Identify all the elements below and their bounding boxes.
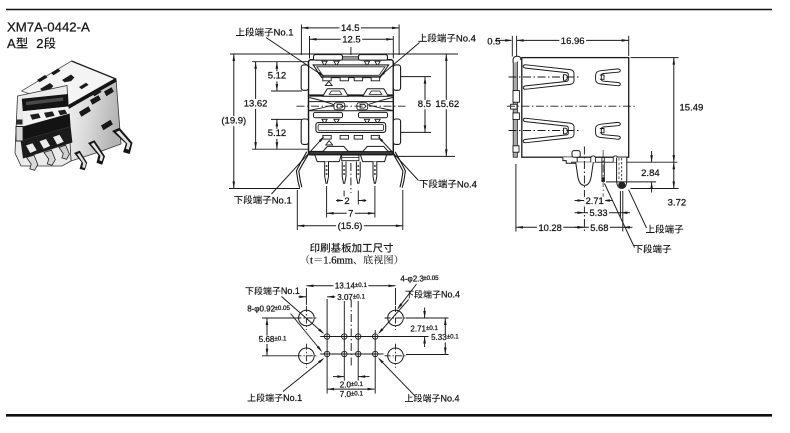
upper port bumps	[323, 89, 349, 96]
svg-text:5.68: 5.68	[259, 335, 275, 344]
label 下段端子No.1 (bottom)	[245, 286, 324, 334]
mounting holes 4-phi2.3	[299, 310, 315, 326]
photo front face	[15, 86, 71, 167]
svg-text:14.5: 14.5	[341, 23, 360, 34]
svg-text:±0.1: ±0.1	[426, 325, 439, 332]
svg-text:15.62: 15.62	[435, 99, 459, 110]
svg-text:10.28: 10.28	[539, 223, 562, 233]
label 8-phi0.92 (bottom)	[247, 305, 322, 352]
lower port wedge marks	[322, 119, 327, 124]
bottom view grid lines	[320, 336, 428, 338]
svg-text:No.4: No.4	[441, 394, 460, 404]
upper USB slot (trapezoid)	[313, 65, 388, 77]
svg-text:7.0: 7.0	[340, 390, 352, 399]
dimension 8.5 line	[424, 77, 427, 133]
caption 印刷基板加工尺寸	[310, 243, 393, 253]
dimension 5.12 upper	[266, 62, 288, 91]
upper port bottom thick line	[309, 94, 392, 96]
svg-text:5.68: 5.68	[590, 223, 608, 233]
svg-text:1.6mm: 1.6mm	[323, 255, 353, 266]
dimension 10.28	[516, 223, 585, 234]
bottom step bracket	[563, 157, 577, 163]
upper port contacts	[323, 77, 331, 81]
label 上段端子No.4 (bottom)	[378, 358, 460, 404]
upper USB port wedge marks	[322, 61, 327, 66]
svg-text:7: 7	[348, 209, 353, 220]
dimension 7.0	[327, 388, 374, 399]
bottom view centerline	[350, 300, 352, 369]
svg-text:No.1: No.1	[281, 286, 300, 296]
svg-text:No.4: No.4	[456, 34, 476, 45]
left edge latch steps	[513, 91, 519, 103]
label 上段端子No.1 (front)	[236, 28, 325, 77]
svg-text:8.5: 8.5	[418, 99, 431, 110]
shell bottom edge thick	[309, 153, 393, 155]
base feet below shell	[315, 155, 342, 162]
svg-text:±0.1: ±0.1	[353, 293, 366, 300]
svg-text:5.33: 5.33	[431, 333, 447, 342]
svg-text:±0.05: ±0.05	[423, 275, 439, 282]
svg-text:2: 2	[36, 36, 43, 51]
svg-text:No.1: No.1	[283, 393, 302, 403]
dimension 16.96	[517, 36, 629, 47]
svg-text:±0.1: ±0.1	[351, 381, 364, 388]
svg-text:±0.1: ±0.1	[447, 334, 460, 341]
front view connector body	[296, 55, 405, 188]
lower-stage pin (thin, side view)	[601, 158, 603, 182]
dimension 5.68 (side)	[575, 223, 633, 234]
svg-text:±0.05: ±0.05	[275, 305, 291, 312]
dimension 2.84	[641, 151, 660, 193]
pin base bumps	[591, 156, 596, 162]
photo front feet	[27, 155, 38, 170]
lower port contacts	[323, 135, 331, 139]
terminal holes 8-phi0.92	[324, 334, 329, 339]
photo right side face	[67, 79, 121, 161]
svg-text:±0.1: ±0.1	[355, 282, 368, 289]
mounting legs (front view)	[296, 152, 309, 188]
bottom view holes and grid	[262, 288, 449, 394]
connector pins (front view)	[325, 162, 329, 184]
lower port top tabs	[314, 112, 343, 117]
dimension (15.6)	[297, 221, 403, 232]
top border rule	[6, 9, 772, 11]
dimension 0.5	[487, 36, 512, 47]
foot pin centerline	[583, 147, 585, 232]
dimension 2.71 (side)	[575, 196, 613, 207]
bottom border rule	[6, 414, 772, 417]
front view shell outline	[309, 60, 394, 155]
svg-text:No.1: No.1	[272, 195, 292, 206]
svg-text:XM7A-0442-A: XM7A-0442-A	[7, 20, 90, 35]
upper spring forks	[523, 65, 620, 89]
svg-text:A: A	[7, 36, 16, 51]
dimension 15.62 line	[445, 54, 448, 156]
svg-text:5.33: 5.33	[590, 208, 608, 218]
front view extension lines	[229, 25, 458, 231]
dimension 5.68 (bottom)	[257, 318, 288, 356]
svg-text:(15.6): (15.6)	[338, 221, 363, 232]
dimension 5.33 (side)	[575, 208, 631, 219]
photo lower USB opening	[19, 114, 70, 141]
side view extension lines	[512, 36, 678, 232]
dimension 3.72	[668, 162, 687, 208]
label 下段端子No.4 (bottom)	[378, 290, 460, 335]
middle horizontal centerline	[297, 105, 406, 107]
svg-text:2.71: 2.71	[586, 196, 604, 206]
photo mid metal band	[23, 107, 70, 127]
dimension (19.9)	[220, 54, 248, 189]
side view body	[507, 56, 677, 231]
dimension 5.12 lower	[266, 119, 288, 149]
labels 8.5 and 15.62	[416, 100, 432, 110]
dimension 12.5	[310, 35, 394, 46]
svg-text:8-φ0.92: 8-φ0.92	[247, 305, 275, 314]
dimension 15.49	[673, 58, 704, 163]
dimension 2.0	[333, 375, 370, 389]
dimension 14.5	[301, 23, 399, 34]
svg-text:13.14: 13.14	[335, 282, 356, 291]
svg-text:2.0: 2.0	[340, 380, 352, 389]
label 下段端子 (side)	[605, 184, 672, 254]
top mounting tabs	[342, 56, 360, 60]
svg-text:4-φ2.3: 4-φ2.3	[400, 275, 424, 284]
latch details	[334, 103, 345, 110]
front foot pin (side view)	[576, 162, 594, 185]
photo top face	[22, 61, 117, 107]
caption (t=1.6mm bottom view)	[306, 255, 397, 267]
photo left ear	[16, 127, 23, 142]
svg-text:12.5: 12.5	[342, 35, 361, 46]
svg-text:15.49: 15.49	[680, 103, 704, 114]
upper-stage pin (wide, side view)	[617, 158, 627, 189]
photo rear legs	[88, 140, 105, 165]
label 下段端子No.4 (front)	[378, 136, 477, 190]
lower USB slot	[316, 123, 386, 133]
photo top-right dark ridge	[68, 80, 117, 108]
label 4-phi2.3 (bottom)	[397, 275, 439, 310]
dimension 3.07	[299, 293, 366, 302]
label 上段端子No.4 (front)	[379, 33, 476, 77]
dimension 2	[336, 196, 366, 207]
svg-text:±0.1: ±0.1	[351, 390, 364, 397]
lower port bottom thick line	[309, 151, 392, 153]
svg-text:16.96: 16.96	[561, 36, 585, 47]
dimension 13.62	[242, 62, 269, 150]
label 上段端子 (side)	[629, 190, 684, 234]
bottom extension edge line	[571, 161, 677, 163]
photo top face tab cutouts	[37, 69, 61, 83]
side view mid centerline	[507, 105, 635, 107]
front view vertical centerline	[350, 47, 352, 193]
svg-text:2.84: 2.84	[641, 168, 660, 179]
dimension 5.33 (bottom)	[430, 318, 461, 355]
svg-text:No.1: No.1	[274, 28, 294, 39]
dimension 7	[327, 209, 375, 220]
svg-text:3.07: 3.07	[337, 293, 353, 302]
top-left curl	[513, 56, 521, 63]
side view extension lines	[511, 36, 513, 57]
side view body outline	[522, 58, 629, 158]
photo of dual USB-A connector	[15, 61, 133, 170]
upper port triangle marker	[325, 81, 332, 85]
svg-text:3.72: 3.72	[668, 197, 687, 208]
side view front face strip	[513, 60, 517, 158]
extension lines front view	[230, 53, 458, 55]
dimension 13.14	[306, 282, 395, 291]
svg-text:No.4: No.4	[457, 179, 477, 190]
svg-text:(19.9): (19.9)	[221, 116, 246, 127]
dimension 2.71 (bottom)	[409, 308, 440, 348]
middle strip between ports	[309, 101, 392, 103]
side ears	[301, 65, 308, 90]
svg-text:13.62: 13.62	[244, 98, 268, 109]
svg-text:t: t	[310, 255, 313, 266]
svg-text:±0.1: ±0.1	[274, 335, 287, 342]
svg-text:5.12: 5.12	[268, 128, 287, 139]
lower port triangle marker	[326, 141, 333, 145]
svg-text:2.71: 2.71	[410, 324, 426, 333]
lower spring forks	[523, 118, 620, 142]
svg-text:5.12: 5.12	[268, 71, 287, 82]
subtitle A型 2段	[7, 36, 56, 51]
photo right face slashes	[79, 87, 114, 130]
label 上段端子No.1 (bottom)	[248, 358, 325, 403]
svg-text:No.4: No.4	[441, 290, 460, 300]
fork centerlines	[509, 76, 580, 78]
label 下段端子No.1 (front)	[234, 136, 324, 206]
lower port bumps	[323, 146, 349, 151]
svg-text:2: 2	[344, 196, 349, 207]
photo lower contact zone	[21, 127, 73, 159]
photo upper USB opening	[22, 94, 69, 111]
svg-text:0.5: 0.5	[487, 36, 500, 47]
